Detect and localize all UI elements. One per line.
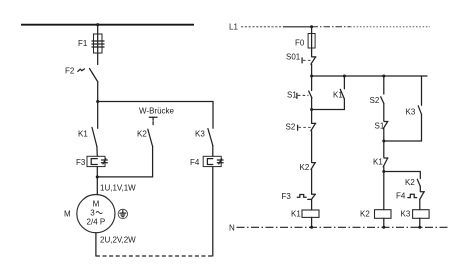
svg-text:F1: F1 bbox=[78, 39, 88, 48]
protective earth symbol bbox=[118, 209, 127, 218]
contact K2 (NC interlock) bbox=[300, 163, 316, 172]
contact K1 (power) bbox=[78, 127, 97, 146]
svg-text:F4: F4 bbox=[190, 158, 200, 167]
wire bbox=[95, 233, 97, 256]
wire bbox=[419, 186, 421, 191]
node: S1/K1 parallel join bbox=[310, 108, 313, 111]
svg-text:K2: K2 bbox=[137, 130, 147, 139]
contact K3 (seal-in NO) bbox=[384, 76, 422, 141]
pushbutton S1 (NC interlock) bbox=[375, 122, 388, 131]
node: rung bus tap bbox=[310, 75, 313, 78]
svg-text:N: N bbox=[229, 224, 235, 233]
net L1 bbox=[229, 23, 430, 32]
wire bbox=[96, 177, 98, 195]
svg-text:S2: S2 bbox=[370, 96, 380, 105]
wire: dashed bottom link bbox=[96, 255, 213, 257]
fuse F1 bbox=[78, 34, 104, 53]
svg-text:F2: F2 bbox=[65, 67, 75, 76]
wire bbox=[383, 167, 385, 172]
svg-text:K2: K2 bbox=[360, 210, 370, 219]
contact F4 (thermal NC) bbox=[396, 192, 424, 201]
svg-text:3: 3 bbox=[90, 209, 95, 218]
svg-text:K1: K1 bbox=[333, 91, 343, 100]
net N bbox=[229, 224, 450, 233]
svg-text:K2: K2 bbox=[405, 178, 415, 187]
wire: K2 branch to motor node bbox=[97, 147, 152, 177]
terminal: W bridge T-bar bbox=[149, 117, 157, 126]
svg-text:K1: K1 bbox=[291, 210, 301, 219]
svg-text:K2: K2 bbox=[300, 163, 310, 172]
node: K2 coil / K3 branch bbox=[382, 170, 385, 173]
wire bbox=[311, 217, 313, 227]
node: motor feed junction bbox=[96, 175, 99, 178]
wire bbox=[383, 218, 385, 227]
svg-text:2/4 P: 2/4 P bbox=[87, 218, 106, 227]
contact K1 (NC interlock) bbox=[373, 158, 388, 167]
node: S1/K3 join bbox=[382, 140, 385, 143]
svg-text:F3: F3 bbox=[282, 192, 292, 201]
wire bbox=[311, 27, 313, 57]
svg-text:K3: K3 bbox=[406, 108, 416, 117]
node: K2 coil to N bbox=[382, 226, 385, 229]
wire bbox=[383, 129, 385, 141]
svg-text:S1: S1 bbox=[287, 91, 297, 100]
wire bbox=[383, 141, 385, 157]
wire bbox=[96, 167, 98, 177]
wire: rung2 tap down bbox=[383, 76, 385, 94]
coil K2 bbox=[360, 210, 391, 219]
wire bbox=[97, 82, 99, 102]
wire bbox=[419, 218, 421, 227]
contact K2 (NO) bbox=[405, 178, 420, 187]
switch F2 bbox=[65, 67, 98, 83]
wire bbox=[212, 167, 214, 256]
pushbutton S2 (NO) bbox=[370, 96, 384, 105]
contact K1 (seal-in NO) bbox=[312, 76, 345, 110]
thermal overload F4 bbox=[190, 156, 223, 167]
wire bbox=[311, 110, 313, 124]
wire bbox=[311, 98, 313, 110]
svg-text:M: M bbox=[64, 210, 71, 219]
supply bus (3-phase single line) bbox=[21, 24, 194, 26]
pushbutton S2 (NC interlock) bbox=[286, 123, 316, 132]
node: bus to F1 tap bbox=[96, 23, 99, 26]
wire bbox=[96, 147, 98, 157]
wire bbox=[311, 170, 313, 194]
contact K2 (power) bbox=[137, 129, 153, 146]
svg-text:2U,2V,2W: 2U,2V,2W bbox=[100, 236, 136, 245]
fuse F0 bbox=[295, 34, 315, 49]
svg-text:F4: F4 bbox=[396, 192, 406, 201]
svg-text:K1: K1 bbox=[373, 158, 383, 167]
pushbutton S1 (NO) bbox=[287, 91, 312, 100]
svg-text:S2: S2 bbox=[286, 123, 296, 132]
wire bbox=[311, 131, 313, 162]
svg-text:F0: F0 bbox=[295, 39, 305, 48]
wire bbox=[311, 76, 313, 91]
svg-text:S01: S01 bbox=[286, 53, 301, 62]
coil K3 bbox=[401, 210, 430, 219]
wire bbox=[383, 172, 385, 210]
svg-text:M: M bbox=[93, 200, 100, 209]
svg-text:K3: K3 bbox=[195, 130, 205, 139]
contact F3 (thermal NC) bbox=[282, 192, 316, 201]
wire bbox=[311, 64, 313, 76]
svg-text:L1: L1 bbox=[229, 23, 238, 32]
thermal overload F3 bbox=[76, 156, 107, 167]
svg-text:K1: K1 bbox=[78, 130, 88, 139]
node: K3 coil to N bbox=[418, 226, 421, 229]
svg-text:1U,1V,1W: 1U,1V,1W bbox=[100, 184, 136, 193]
wire bbox=[311, 200, 313, 210]
wire bbox=[383, 103, 385, 120]
motor M bbox=[64, 195, 115, 233]
wire bbox=[97, 25, 99, 65]
pushbutton S01 (NC) bbox=[286, 53, 316, 65]
node: L1 tap bbox=[310, 25, 313, 28]
svg-text:W-Brücke: W-Brücke bbox=[139, 107, 175, 116]
wire: down to K1 bbox=[97, 102, 99, 129]
wire: branch to K3 column bbox=[384, 172, 421, 179]
coil K1 bbox=[291, 210, 319, 219]
wire: auxiliary bus bbox=[312, 75, 427, 77]
wire: branch bus to K3 bbox=[98, 102, 213, 129]
svg-text:F3: F3 bbox=[76, 158, 86, 167]
contact K3 (power) bbox=[195, 129, 213, 146]
node: K1 coil to N bbox=[310, 226, 313, 229]
node: F2 output junction bbox=[96, 100, 99, 103]
wire bbox=[419, 199, 421, 209]
svg-text:K3: K3 bbox=[401, 210, 411, 219]
wire: K3 branch down bbox=[212, 146, 214, 157]
